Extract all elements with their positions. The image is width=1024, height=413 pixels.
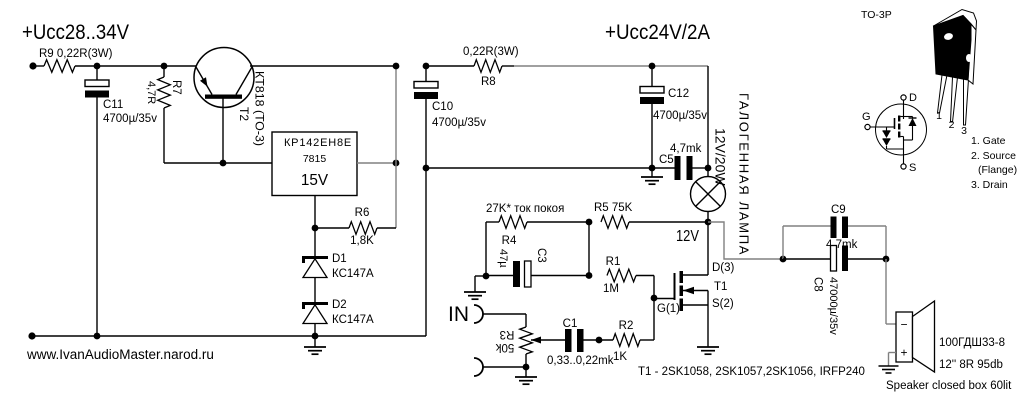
wire R6 to vertical [377, 227, 396, 229]
svg-text:1. Gate: 1. Gate [971, 135, 1006, 147]
svg-text:R3: R3 [500, 328, 515, 340]
node C10 gnd wire junction [423, 165, 430, 172]
transistor T2 base bar [205, 95, 242, 99]
wire T2 collector to rail [250, 65, 396, 67]
wire R5 to lamp node [629, 221, 708, 223]
svg-text:+Ucc28..34V: +Ucc28..34V [22, 20, 130, 44]
svg-text:C3: C3 [535, 248, 547, 263]
node R6 left junction [312, 225, 319, 232]
svg-text:3: 3 [961, 125, 967, 137]
input jack bottom arc [474, 358, 483, 376]
ground symbol main [314, 336, 316, 347]
svg-text:4700µ/35v: 4700µ/35v [653, 110, 707, 122]
lamp HL1 cross [696, 182, 721, 207]
capacitor C5 [675, 156, 681, 180]
svg-text:C11: C11 [103, 99, 123, 111]
svg-text:1M: 1M [603, 283, 619, 295]
svg-text:T2: T2 [237, 107, 251, 121]
wire T2 base down [222, 99, 224, 164]
wire R2 to gate column [640, 339, 654, 341]
node C11 bottom junction [94, 333, 101, 340]
node C10 top junction [423, 63, 430, 70]
svg-text:12'' 8R 95db: 12'' 8R 95db [939, 359, 1003, 371]
svg-text:4,7R: 4,7R [145, 81, 157, 104]
svg-text:4,7mk: 4,7mk [670, 143, 702, 155]
wire C10 top lead [425, 66, 427, 82]
speaker box [896, 312, 913, 362]
svg-text:TO-3P: TO-3P [861, 9, 892, 21]
T1 source lead [683, 304, 708, 306]
wire lamp node to C8 row [708, 222, 783, 259]
svg-text:Speaker closed box 60lit: Speaker closed box 60lit [886, 380, 1012, 392]
svg-text:www.IvanAudioMaster.narod.ru: www.IvanAudioMaster.narod.ru [26, 347, 214, 362]
svg-text:27K* ток покоя: 27K* ток покоя [486, 203, 564, 215]
wire C1 to R2 [584, 339, 614, 341]
wire to C8 [783, 258, 831, 260]
svg-text:4700µ/35v: 4700µ/35v [103, 113, 157, 125]
input terminal dot left top [29, 62, 36, 69]
T1 channel dashes [680, 271, 684, 283]
svg-text:КС147А: КС147А [332, 268, 374, 280]
TO-3P package leg 2 [951, 77, 958, 122]
wire R1 to gate column [636, 275, 654, 277]
svg-text:C9: C9 [831, 204, 846, 216]
wire source to ground [707, 305, 709, 347]
wire U1 ground pin [314, 196, 316, 229]
mosfet S terminal [901, 164, 906, 169]
svg-text:R6: R6 [355, 207, 370, 219]
wire down to speaker [885, 259, 887, 324]
wire lamp bottom lead [707, 212, 709, 223]
mosfet right zener [912, 117, 914, 119]
svg-text:1: 1 [936, 110, 942, 122]
svg-text:R9 0,22R(3W): R9 0,22R(3W) [39, 48, 113, 60]
wire R4 to node [527, 221, 589, 223]
wire to C3 [486, 275, 513, 277]
svg-text:100ГДШ33-8: 100ГДШ33-8 [939, 337, 1005, 349]
svg-text:47µ: 47µ [497, 249, 509, 268]
svg-text:1,8K: 1,8K [350, 235, 374, 247]
zener D2 [302, 302, 328, 305]
node T2 base junction [220, 160, 227, 167]
node C3/R1 junction [586, 272, 593, 279]
wire rail to T2 emitter [164, 65, 196, 67]
capacitor C12 [640, 87, 664, 94]
svg-text:R7: R7 [170, 80, 182, 95]
wire bottom jack to R3 [483, 366, 526, 368]
node D2 bottom junction [312, 333, 319, 340]
svg-text:IN: IN [448, 303, 469, 326]
wire bottom rail [32, 335, 426, 337]
TO-3P package notch [966, 54, 972, 62]
wire lamp top lead [707, 168, 709, 177]
zener D1 [302, 256, 328, 259]
mosfet gate bar [894, 118, 896, 129]
node gnd junction [649, 165, 656, 172]
wire gnd row [426, 167, 675, 169]
svg-text:КР142ЕН8Е: КР142ЕН8Е [284, 137, 352, 149]
transistor T2 collector [236, 67, 252, 95]
mosfet gate zeners [886, 127, 888, 131]
node junction R9/C11 [94, 63, 101, 70]
capacitor C9 [831, 217, 837, 239]
wire input to R9 [33, 65, 44, 67]
svg-text:D2: D2 [332, 299, 347, 311]
ground symbol mid [651, 168, 653, 177]
svg-text:2: 2 [949, 119, 955, 131]
svg-text:4700µ/35v: 4700µ/35v [432, 117, 486, 129]
ground symbol source [697, 346, 719, 348]
mosfet D terminal [901, 95, 906, 100]
node vertical at top rail [393, 63, 400, 70]
transistor T2 circle [194, 48, 254, 108]
wire C11 bottom lead [96, 98, 98, 337]
capacitor C1 [565, 329, 572, 352]
resistor R9 [44, 60, 75, 73]
node C12 top junction [649, 63, 656, 70]
svg-text:C8: C8 [812, 277, 824, 292]
svg-text:КТ818 (ТО-3): КТ818 (ТО-3) [253, 71, 267, 146]
mosfet drain link [900, 116, 903, 118]
wire R3 bottom [525, 354, 527, 367]
svg-text:47000µ/35v: 47000µ/35v [827, 277, 839, 335]
node U1 output junction [393, 160, 400, 167]
wire C12 bottom lead [651, 104, 653, 168]
potentiometer R3 [520, 327, 533, 354]
node C8 row left junction [780, 256, 787, 263]
speaker cone [913, 301, 935, 372]
capacitor C11 [85, 80, 109, 87]
wire C5 to lamp node [693, 167, 709, 169]
resistor R5 [601, 216, 629, 229]
svg-text:3. Drain: 3. Drain [971, 179, 1008, 191]
wire C3 to R1 node [531, 275, 589, 277]
svg-text:D(3): D(3) [712, 262, 735, 274]
svg-text:D: D [909, 92, 917, 104]
svg-text:R8: R8 [481, 76, 496, 88]
node R4/R5 junction [586, 219, 593, 226]
resistor R1 [607, 269, 636, 282]
svg-text:T1 - 2SK1058, 2SK1057,2SK1056,: T1 - 2SK1058, 2SK1057,2SK1056, IRFP240 [638, 366, 865, 378]
mosfet channel [898, 116, 900, 122]
mosfet source link [900, 136, 903, 138]
svg-text:G: G [862, 111, 871, 123]
wire speaker plus to gnd [889, 352, 897, 354]
wire C11 top lead [96, 66, 98, 80]
wire to R6 [315, 227, 349, 229]
node gate junction [651, 295, 658, 302]
resistor R4 [499, 216, 527, 229]
wire U1 output [357, 162, 396, 164]
wire regulator gnd to D1 [314, 228, 316, 336]
svg-text:G(1): G(1) [657, 303, 680, 315]
regulator U1 box [272, 132, 357, 196]
wire IN to R3 top [483, 313, 526, 315]
ground symbol input [525, 367, 527, 377]
input jack top arc [474, 305, 483, 323]
svg-text:+Ucc24V/2A: +Ucc24V/2A [605, 20, 711, 44]
wiper arrow R3 [531, 339, 565, 341]
node C3 left junction [483, 273, 490, 280]
svg-text:R2: R2 [619, 320, 634, 332]
svg-text:1K: 1K [613, 351, 627, 363]
mosfet symbol circle [876, 104, 927, 155]
svg-text:КС147А: КС147А [332, 314, 374, 326]
mosfet G terminal [865, 124, 870, 129]
node lamp top junction [705, 165, 712, 172]
wire rail to R8 [426, 65, 474, 67]
resistor R6 [349, 222, 377, 235]
svg-text:12V: 12V [676, 228, 700, 245]
node lamp bottom junction [705, 219, 712, 226]
svg-text:(Flange): (Flange) [978, 164, 1017, 176]
svg-text:C10: C10 [432, 101, 453, 113]
wire R8 to C12 rail [502, 65, 514, 67]
svg-text:+: + [900, 346, 907, 360]
svg-text:−: − [900, 318, 907, 332]
resistor R7 [163, 66, 165, 77]
svg-text:7815: 7815 [303, 153, 327, 165]
svg-text:T1: T1 [714, 281, 727, 293]
wire R4 left lead [486, 221, 499, 223]
svg-text:12V/20W: 12V/20W [713, 128, 729, 186]
wire C8 to speaker junction [848, 258, 886, 260]
T1 gate bar [674, 273, 676, 300]
TO-3P package top face [934, 10, 977, 31]
TO-3P package hole [943, 32, 953, 41]
svg-text:R5 75K: R5 75K [594, 202, 633, 214]
svg-text:C5: C5 [659, 154, 674, 166]
T1 drain lead [683, 274, 708, 276]
wire rail corner down to lamp [707, 66, 709, 168]
svg-text:C1: C1 [563, 318, 578, 330]
wire C12 top lead [651, 66, 653, 87]
capacitor C8 [831, 246, 837, 272]
svg-text:0,33..0,22mk: 0,33..0,22mk [547, 355, 614, 367]
svg-text:ГАЛОГЕННАЯ ЛАМПА: ГАЛОГЕННАЯ ЛАМПА [737, 93, 752, 256]
TO-3P package side face [968, 24, 976, 84]
svg-text:C12: C12 [668, 88, 689, 100]
svg-text:15V: 15V [301, 172, 329, 189]
node R3 bottom junction [523, 364, 530, 371]
lamp HL1 circle [691, 177, 726, 212]
capacitor C3 [513, 261, 520, 287]
svg-text:0,22R(3W): 0,22R(3W) [463, 46, 519, 58]
node C1/R2 junction dot [596, 337, 603, 344]
capacitor C10 [414, 82, 438, 89]
wire gate lead [654, 298, 674, 300]
wire top rail to R7 [97, 65, 164, 67]
T1 body arrow [683, 290, 708, 292]
TO-3P package leg 3 [964, 79, 969, 125]
wire vertical rail-R6 [395, 66, 397, 228]
wire R9 to node [75, 65, 97, 67]
node junction R7 top [161, 63, 168, 70]
svg-text:D1: D1 [332, 253, 347, 265]
svg-text:R1: R1 [606, 256, 621, 268]
wire C9 branch left [782, 226, 784, 259]
ground symbol C3 [475, 275, 486, 277]
resistor R2 [613, 334, 640, 347]
wire feedback node down [588, 222, 590, 275]
svg-text:S(2): S(2) [712, 298, 734, 310]
svg-text:S: S [909, 162, 916, 174]
ground symbol speaker [879, 365, 899, 367]
svg-text:2. Source: 2. Source [971, 150, 1016, 162]
wire base wire to regulator [164, 162, 272, 164]
wire C10 bottom lead [425, 99, 427, 336]
resistor R8 [474, 60, 502, 73]
svg-text:R4: R4 [502, 235, 517, 247]
mosfet bottom wire [887, 148, 904, 150]
TO-3P package body [934, 16, 972, 81]
terminal dot bottom left [28, 332, 35, 339]
TO-3P package leg 1 [938, 75, 948, 113]
wire C9 branch right [848, 225, 886, 227]
transistor T2 emitter [196, 67, 212, 95]
node speaker junction [883, 256, 890, 263]
svg-text:50k: 50k [495, 341, 514, 353]
